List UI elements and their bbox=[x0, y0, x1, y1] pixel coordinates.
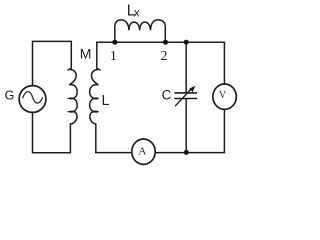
svg-text:C: C bbox=[162, 87, 172, 102]
svg-text:M: M bbox=[80, 45, 92, 61]
svg-text:L: L bbox=[102, 93, 110, 109]
svg-text:2: 2 bbox=[160, 49, 167, 64]
svg-text:1: 1 bbox=[110, 49, 117, 64]
svg-text:G: G bbox=[5, 89, 15, 103]
svg-text:x: x bbox=[134, 7, 140, 19]
svg-text:A: A bbox=[138, 146, 146, 158]
svg-text:V: V bbox=[219, 90, 227, 101]
